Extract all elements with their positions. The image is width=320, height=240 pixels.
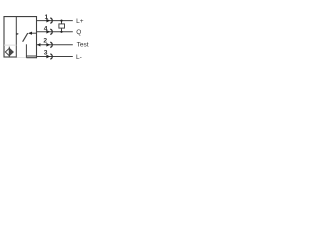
wire pin3 (37, 56, 73, 58)
switch blade (23, 34, 28, 42)
wire pin4 (37, 31, 73, 33)
wire pin1 (37, 20, 73, 22)
proximity symbol diamond (5, 48, 13, 55)
connector plug pin1 (46, 18, 52, 23)
switch lower contact vertical (25, 44, 27, 57)
sensor body right edge (36, 16, 38, 58)
load branch vertical (61, 21, 63, 32)
connector plug pin4 (46, 29, 52, 34)
sensor body left edge (3, 16, 5, 57)
test arrowhead at pin2 (37, 43, 40, 46)
svg-text:2: 2 (43, 38, 47, 45)
test arrowhead internal (28, 32, 32, 35)
sensing-element box top (4, 44, 16, 46)
sensor body bottom edge middle faint (16, 56, 26, 58)
svg-text:Test: Test (77, 42, 89, 49)
proximity symbol filled half (9, 48, 13, 55)
junction dot upper (60, 20, 62, 22)
connector plug pin2 (46, 42, 52, 47)
proximity symbol axis (8, 47, 10, 57)
sensor body bottom edge right (26, 57, 37, 59)
sensor body bottom edge left (4, 56, 17, 58)
divider (15, 17, 17, 58)
connector plug pin3 (46, 54, 52, 59)
sensor body top edge (4, 16, 38, 18)
junction dot lower (60, 31, 62, 33)
svg-text:Q: Q (76, 29, 81, 36)
wire pin2 (37, 44, 73, 46)
svg-text:L-: L- (76, 54, 82, 61)
svg-text:L+: L+ (76, 18, 84, 25)
svg-text:1: 1 (45, 14, 49, 21)
svg-text:4: 4 (44, 26, 48, 33)
load resistor (59, 24, 65, 28)
actuation arrow (17, 33, 19, 35)
internal L- rail (26, 55, 36, 57)
svg-text:3: 3 (44, 49, 48, 56)
test pointer line (32, 32, 37, 34)
